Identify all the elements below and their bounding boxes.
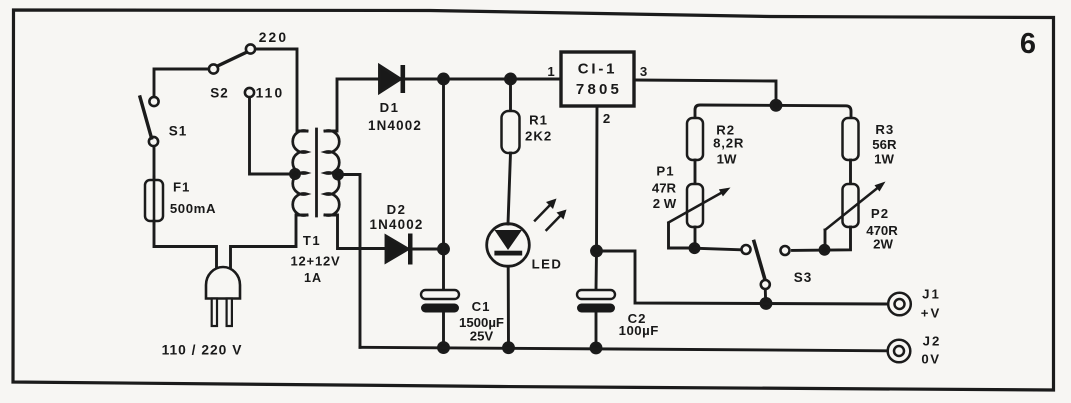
wire secondary top to D1 — [325, 79, 381, 131]
secondary tap junction — [334, 170, 343, 179]
svg-text:P1: P1 — [656, 164, 674, 179]
junction R1 top node — [506, 74, 516, 84]
svg-text:220: 220 — [259, 30, 289, 45]
secondary winding — [325, 130, 339, 215]
svg-text:CI-1: CI-1 — [578, 61, 618, 78]
capacitor C1 — [421, 290, 504, 344]
junction output bus — [771, 100, 781, 110]
svg-text:3: 3 — [640, 64, 647, 79]
svg-text:2K2: 2K2 — [525, 128, 552, 143]
svg-text:+V: +V — [921, 306, 942, 321]
wire secondary tap to 0V rail — [339, 175, 360, 348]
jack J1 — [888, 287, 941, 321]
svg-text:8,2R: 8,2R — [713, 136, 744, 151]
primary winding — [293, 131, 307, 216]
switch S1 — [140, 97, 187, 146]
wire secondary bottom to D2 — [325, 215, 386, 249]
svg-text:R3: R3 — [875, 122, 894, 137]
node 110 tap terminal — [245, 88, 254, 97]
svg-text:7805: 7805 — [576, 81, 622, 98]
wire 110 terminal to primary tap — [250, 98, 292, 174]
svg-text:0V: 0V — [921, 352, 940, 367]
svg-text:D2: D2 — [387, 202, 407, 217]
svg-text:C1: C1 — [472, 299, 491, 314]
LED — [487, 199, 567, 272]
wire node A down through C1 to 0V rail — [442, 79, 445, 290]
wire S1 to fuse F1 — [153, 147, 156, 181]
svg-text:56R: 56R — [872, 137, 897, 152]
wire node A to R1 node — [444, 78, 511, 81]
wire R2/R3 top bus — [695, 105, 851, 118]
svg-text:1W: 1W — [874, 152, 894, 167]
wire S1 to S2 common — [154, 69, 209, 97]
wire 0V rail — [360, 347, 886, 351]
wire CI-1 pin 2 down to C2 and rail — [595, 106, 598, 251]
op-amp CI-1 regulator 7805 — [547, 52, 647, 126]
diode D1 — [368, 65, 422, 133]
wire LED to 0V rail — [507, 266, 510, 347]
svg-text:1N4002: 1N4002 — [369, 217, 423, 232]
svg-text:D1: D1 — [380, 100, 400, 115]
svg-text:110 / 220 V: 110 / 220 V — [162, 343, 243, 358]
wire R1 to LED — [508, 153, 511, 224]
switch S2 — [209, 53, 246, 101]
junction node A — [439, 74, 449, 84]
junction LED ground — [504, 343, 514, 353]
svg-text:F1: F1 — [173, 180, 190, 195]
switch S3 — [742, 242, 813, 290]
wire transformer primary bottom to plug right prong — [231, 215, 308, 273]
wire CI-1 pin 3 output — [634, 80, 776, 105]
wire R1 node to CI-1 pin 1 — [511, 78, 562, 81]
svg-text:2 W: 2 W — [653, 196, 677, 211]
svg-text:110: 110 — [256, 86, 285, 101]
wire fuse to plug left prong — [154, 221, 217, 273]
wire junction to S3 left contact — [695, 248, 741, 250]
fuse F1 — [145, 177, 216, 224]
svg-text:P2: P2 — [871, 206, 889, 221]
resistor R2 — [687, 118, 744, 167]
wire D2 to node A vertical — [413, 248, 444, 251]
mains plug — [206, 267, 240, 326]
svg-text:1W: 1W — [717, 152, 737, 167]
svg-text:S1: S1 — [169, 124, 188, 139]
wire pin2 node to +V output line — [597, 251, 887, 304]
svg-text:2: 2 — [603, 111, 610, 126]
core — [315, 129, 318, 216]
svg-text:1: 1 — [547, 64, 554, 79]
svg-text:2W: 2W — [873, 237, 893, 252]
transformer T1 — [291, 129, 343, 285]
wire R3 to P2 — [849, 160, 852, 184]
svg-text:S2: S2 — [210, 86, 229, 101]
svg-text:J2: J2 — [923, 334, 942, 349]
wire D1 to node A — [405, 78, 444, 81]
svg-text:J1: J1 — [922, 287, 941, 302]
junction C1 ground — [439, 343, 449, 353]
wire 220 terminal to primary top — [256, 49, 308, 131]
svg-text:47R: 47R — [652, 181, 677, 196]
junction P2 wiper node — [820, 245, 829, 254]
svg-text:T1: T1 — [303, 233, 321, 248]
junction pin2 branch — [592, 246, 602, 256]
jack J2 — [888, 334, 942, 367]
resistor R1 — [502, 79, 553, 153]
svg-text:R1: R1 — [529, 113, 548, 128]
junction D2 output — [439, 244, 449, 254]
wire P1 bottom to junction — [694, 227, 697, 248]
svg-text:1N4002: 1N4002 — [368, 118, 422, 133]
potentiometer P1 — [652, 164, 731, 249]
svg-text:100µF: 100µF — [619, 323, 659, 338]
svg-text:1A: 1A — [304, 271, 322, 285]
primary tap junction — [291, 170, 300, 179]
diode D2 — [369, 202, 423, 265]
junction C2 ground — [591, 343, 601, 353]
svg-text:LED: LED — [532, 257, 563, 272]
wire S3 moving contact down to +V line — [764, 290, 767, 303]
junction P1 wiper node — [690, 244, 699, 253]
svg-text:500mA: 500mA — [170, 201, 216, 216]
wire R2 to P1 — [694, 160, 697, 184]
wire P2 bottom to S3 right contact — [793, 227, 851, 250]
node 220 tap terminal — [246, 44, 255, 53]
potentiometer P2 — [825, 182, 898, 252]
svg-text:S3: S3 — [794, 270, 813, 285]
svg-text:25V: 25V — [470, 329, 494, 344]
svg-text:6: 6 — [1020, 28, 1036, 60]
capacitor C2 — [577, 290, 659, 338]
svg-text:12+12V: 12+12V — [291, 254, 341, 269]
junction S3 output — [761, 298, 771, 308]
resistor R3 — [843, 118, 897, 167]
